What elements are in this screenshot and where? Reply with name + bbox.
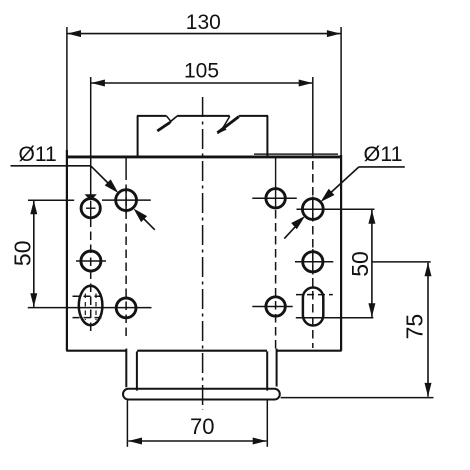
svg-text:75: 75 [402, 314, 428, 340]
svg-text:Ø11: Ø11 [19, 143, 57, 166]
svg-text:Ø11: Ø11 [364, 142, 403, 166]
svg-text:70: 70 [190, 414, 214, 439]
svg-text:105: 105 [184, 60, 219, 83]
svg-text:130: 130 [186, 11, 221, 34]
svg-text:50: 50 [10, 241, 36, 267]
svg-text:50: 50 [347, 251, 373, 277]
